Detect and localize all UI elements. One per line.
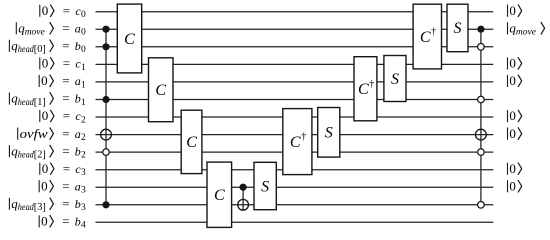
svg-text:0: 0 bbox=[42, 3, 49, 18]
wire c1 bbox=[96, 63, 494, 65]
svg-text:b: b bbox=[75, 92, 81, 106]
svg-text:head: head bbox=[18, 203, 34, 213]
svg-text:0: 0 bbox=[509, 73, 516, 88]
svg-text:=: = bbox=[63, 56, 70, 71]
svg-text:3: 3 bbox=[81, 203, 86, 213]
wire c2 bbox=[96, 116, 494, 118]
left label a0 bbox=[16, 21, 86, 38]
right column control on a0 bbox=[477, 26, 484, 33]
CNOT target on b3 bbox=[238, 199, 249, 210]
right column anticontrol on b0 bbox=[478, 44, 485, 51]
svg-text:a: a bbox=[75, 74, 81, 88]
right label row a0 bbox=[508, 21, 545, 38]
wire b2 bbox=[96, 151, 494, 153]
left label a3 bbox=[39, 178, 86, 195]
sum gate S1 bbox=[254, 162, 276, 209]
svg-text:C: C bbox=[420, 29, 431, 46]
svg-text:[1]: [1] bbox=[34, 97, 46, 108]
carry gate C3 bbox=[181, 110, 202, 173]
svg-text:a: a bbox=[75, 22, 81, 36]
svg-text:head: head bbox=[18, 45, 34, 55]
carry gate C4 bbox=[207, 162, 232, 227]
svg-text:=: = bbox=[63, 161, 70, 176]
left label a2 bbox=[18, 126, 86, 143]
wire b3 bbox=[96, 204, 494, 206]
right control line spanning a0..b3 bbox=[480, 29, 482, 205]
svg-text:3: 3 bbox=[81, 186, 86, 196]
left label b2 bbox=[9, 143, 86, 160]
right label row c2 bbox=[508, 108, 522, 123]
svg-text:=: = bbox=[62, 126, 69, 141]
svg-text:head: head bbox=[18, 98, 34, 108]
inverse carry gate Cd1 bbox=[283, 109, 312, 175]
svg-text:head: head bbox=[18, 151, 34, 161]
svg-text:S: S bbox=[454, 20, 462, 37]
svg-text:C: C bbox=[214, 187, 225, 204]
right label row a2 bbox=[508, 126, 522, 141]
left column control on b1 bbox=[102, 96, 109, 103]
wire a1 bbox=[96, 81, 494, 83]
sum gate S4 bbox=[447, 4, 468, 52]
svg-text:move: move bbox=[25, 28, 45, 38]
svg-text:0: 0 bbox=[509, 126, 516, 141]
inverse carry gate Cd3 bbox=[413, 4, 441, 69]
left label a1 bbox=[39, 73, 86, 90]
right label row a3 bbox=[508, 178, 522, 193]
svg-text:b: b bbox=[75, 39, 81, 53]
svg-text:C: C bbox=[124, 31, 135, 48]
svg-text:0: 0 bbox=[41, 178, 48, 193]
svg-text:=: = bbox=[62, 73, 69, 88]
left label b0 bbox=[9, 38, 86, 55]
right label row c3 bbox=[508, 161, 522, 176]
svg-text:3: 3 bbox=[81, 168, 86, 178]
svg-text:1: 1 bbox=[81, 80, 86, 90]
wire b4 bbox=[96, 221, 494, 223]
wire c0 bbox=[96, 11, 494, 13]
svg-text:4: 4 bbox=[81, 221, 86, 231]
svg-text:=: = bbox=[62, 196, 69, 211]
right column target on a2 bbox=[476, 129, 487, 140]
svg-text:2: 2 bbox=[81, 151, 86, 161]
svg-text:=: = bbox=[62, 21, 69, 36]
svg-text:S: S bbox=[325, 125, 333, 142]
left column control on a0 bbox=[102, 26, 109, 33]
svg-text:C: C bbox=[155, 82, 166, 99]
carry gate C1 bbox=[117, 4, 141, 73]
svg-text:=: = bbox=[62, 38, 69, 53]
svg-text:b: b bbox=[75, 197, 81, 211]
wire a0 bbox=[96, 28, 494, 30]
left label b4 bbox=[39, 214, 86, 231]
svg-text:[0]: [0] bbox=[34, 44, 46, 55]
svg-text:0: 0 bbox=[509, 161, 516, 176]
svg-text:1: 1 bbox=[81, 63, 86, 73]
wire a2 bbox=[96, 134, 494, 136]
svg-text:2: 2 bbox=[81, 115, 86, 125]
wire c3 bbox=[96, 169, 494, 171]
svg-text:0: 0 bbox=[81, 45, 86, 55]
svg-text:ovfw: ovfw bbox=[20, 126, 48, 141]
svg-text:0: 0 bbox=[41, 214, 48, 229]
svg-text:0: 0 bbox=[41, 73, 48, 88]
wire a3 bbox=[96, 186, 494, 188]
svg-text:b: b bbox=[75, 215, 81, 229]
svg-text:0: 0 bbox=[509, 108, 516, 123]
right column anticontrol on b2 bbox=[478, 149, 485, 156]
svg-text:0: 0 bbox=[509, 56, 516, 71]
sum gate S3 bbox=[384, 56, 406, 102]
svg-text:[3]: [3] bbox=[34, 202, 46, 213]
inverse carry gate Cd2 bbox=[354, 57, 377, 121]
svg-text:=: = bbox=[62, 178, 69, 193]
left label b1 bbox=[9, 91, 86, 108]
CNOT vertical line a3-b3 bbox=[242, 187, 244, 210]
left label c0 bbox=[40, 3, 86, 20]
svg-text:S: S bbox=[261, 178, 269, 195]
left label b3 bbox=[9, 196, 86, 213]
left column target on a2 bbox=[101, 129, 112, 140]
right label row c0 bbox=[508, 3, 522, 18]
svg-text:C: C bbox=[186, 134, 197, 151]
svg-text:b: b bbox=[75, 144, 81, 158]
left label c1 bbox=[40, 56, 86, 73]
svg-text:a: a bbox=[75, 127, 81, 141]
right column anticontrol on b1 bbox=[478, 96, 485, 103]
svg-text:0: 0 bbox=[509, 178, 516, 193]
left column control on b0 bbox=[102, 43, 109, 50]
svg-text:0: 0 bbox=[81, 28, 86, 38]
left label c2 bbox=[40, 108, 86, 125]
left column anticontrol on b2 bbox=[103, 149, 110, 156]
svg-text:=: = bbox=[63, 108, 70, 123]
svg-text:†: † bbox=[431, 27, 436, 38]
svg-text:S: S bbox=[391, 71, 399, 88]
left label c3 bbox=[40, 161, 86, 178]
right label row a1 bbox=[508, 73, 522, 88]
svg-text:a: a bbox=[75, 179, 81, 193]
sum gate S2 bbox=[318, 108, 340, 158]
svg-text:0: 0 bbox=[81, 10, 86, 20]
right label row c1 bbox=[508, 56, 522, 71]
CNOT control on a3 bbox=[240, 184, 247, 191]
carry gate C2 bbox=[149, 58, 174, 122]
svg-text:=: = bbox=[62, 143, 69, 158]
wire b1 bbox=[96, 99, 494, 101]
wire b0 bbox=[96, 46, 494, 48]
svg-text:1: 1 bbox=[81, 98, 86, 108]
svg-text:=: = bbox=[62, 91, 69, 106]
svg-text:[2]: [2] bbox=[34, 150, 46, 161]
svg-text:2: 2 bbox=[81, 133, 86, 143]
svg-text:0: 0 bbox=[509, 3, 516, 18]
svg-text:C: C bbox=[358, 81, 369, 98]
svg-text:=: = bbox=[62, 214, 69, 229]
left control line spanning a0..b3 bbox=[105, 29, 107, 205]
svg-text:0: 0 bbox=[42, 56, 49, 71]
left column control on b3 bbox=[102, 201, 109, 208]
svg-text:=: = bbox=[63, 3, 70, 18]
svg-text:0: 0 bbox=[42, 161, 49, 176]
svg-text:0: 0 bbox=[42, 108, 49, 123]
svg-text:move: move bbox=[516, 28, 536, 38]
svg-text:†: † bbox=[301, 132, 306, 143]
svg-text:†: † bbox=[369, 79, 374, 90]
svg-text:C: C bbox=[290, 134, 301, 151]
right column anticontrol on b3 bbox=[478, 202, 485, 209]
